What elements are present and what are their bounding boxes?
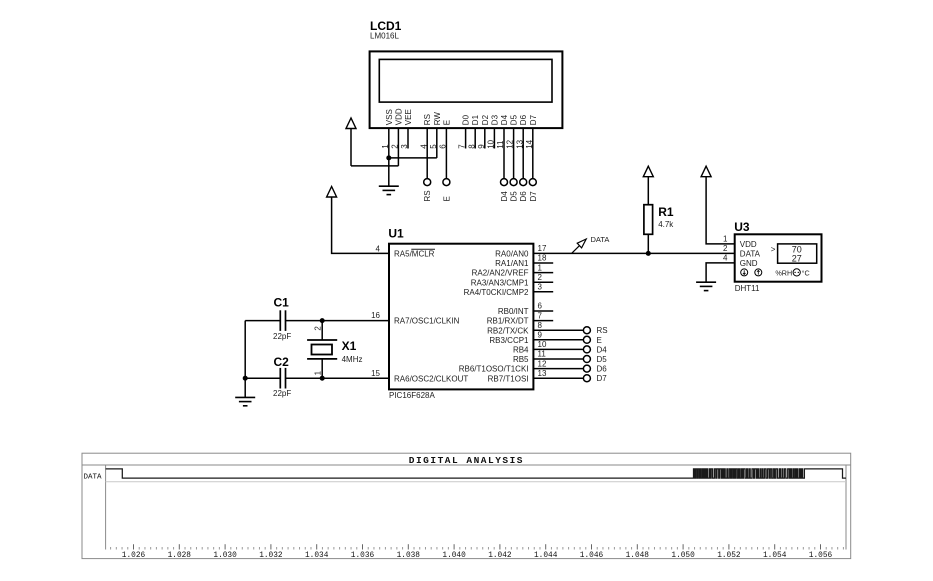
svg-text:D3: D3 bbox=[490, 114, 499, 125]
svg-text:R1: R1 bbox=[658, 205, 674, 219]
svg-text:D7: D7 bbox=[597, 374, 608, 383]
svg-text:RA0/AN0: RA0/AN0 bbox=[495, 250, 529, 259]
svg-text:1.056: 1.056 bbox=[809, 552, 833, 560]
svg-text:1.030: 1.030 bbox=[213, 552, 237, 560]
svg-text:X1: X1 bbox=[342, 339, 357, 353]
svg-text:D6: D6 bbox=[519, 191, 528, 202]
svg-text:1.048: 1.048 bbox=[626, 552, 650, 560]
svg-text:27: 27 bbox=[792, 254, 802, 264]
svg-text:RB5: RB5 bbox=[513, 355, 529, 364]
svg-text:1.046: 1.046 bbox=[580, 552, 604, 560]
svg-text:D7: D7 bbox=[529, 191, 538, 202]
svg-text:RB2/TX/CK: RB2/TX/CK bbox=[487, 326, 529, 335]
svg-text:°C: °C bbox=[802, 268, 810, 277]
svg-text:VSS: VSS bbox=[385, 109, 394, 125]
svg-text:1.034: 1.034 bbox=[305, 552, 329, 560]
svg-text:12: 12 bbox=[538, 359, 547, 368]
svg-text:DATA: DATA bbox=[84, 473, 103, 481]
svg-text:2: 2 bbox=[313, 326, 322, 331]
svg-text:RB4: RB4 bbox=[513, 346, 529, 355]
svg-text:1.054: 1.054 bbox=[763, 552, 787, 560]
svg-text:U1: U1 bbox=[388, 227, 404, 241]
svg-text:1: 1 bbox=[313, 370, 322, 375]
svg-text:1.044: 1.044 bbox=[534, 552, 558, 560]
svg-text:8: 8 bbox=[538, 321, 543, 330]
svg-text:RW: RW bbox=[433, 112, 442, 126]
svg-text:C1: C1 bbox=[274, 296, 290, 310]
svg-text:D4: D4 bbox=[597, 345, 608, 354]
svg-text:C2: C2 bbox=[274, 355, 290, 369]
svg-text:RS: RS bbox=[423, 114, 432, 125]
svg-text:D2: D2 bbox=[481, 114, 490, 125]
svg-text:9: 9 bbox=[538, 331, 543, 340]
svg-text:RA3/AN3/CMP1: RA3/AN3/CMP1 bbox=[471, 278, 529, 287]
svg-text:D5: D5 bbox=[510, 191, 519, 202]
svg-text:15: 15 bbox=[371, 369, 380, 378]
svg-text:4.7k: 4.7k bbox=[658, 220, 674, 229]
svg-text:1.026: 1.026 bbox=[122, 552, 146, 560]
svg-text:RB0/INT: RB0/INT bbox=[498, 307, 529, 316]
svg-text:PIC16F628A: PIC16F628A bbox=[389, 391, 435, 400]
svg-text:1.028: 1.028 bbox=[168, 552, 192, 560]
svg-text:6: 6 bbox=[538, 302, 543, 311]
svg-text:DIGITAL ANALYSIS: DIGITAL ANALYSIS bbox=[409, 455, 524, 466]
svg-text:DATA: DATA bbox=[740, 249, 761, 258]
svg-text:1.050: 1.050 bbox=[671, 552, 695, 560]
svg-text:E: E bbox=[597, 336, 602, 345]
svg-text:RA2/AN2/VREF: RA2/AN2/VREF bbox=[472, 269, 529, 278]
svg-text:D0: D0 bbox=[462, 114, 471, 125]
svg-text:DATA: DATA bbox=[591, 235, 610, 244]
svg-text:VDD: VDD bbox=[394, 108, 403, 125]
svg-text:7: 7 bbox=[538, 311, 543, 320]
svg-text:1.036: 1.036 bbox=[351, 552, 375, 560]
svg-text:1: 1 bbox=[723, 235, 728, 244]
svg-text:2: 2 bbox=[538, 273, 543, 282]
svg-text:3: 3 bbox=[538, 283, 543, 292]
svg-text:1.042: 1.042 bbox=[488, 552, 512, 560]
svg-text:U3: U3 bbox=[734, 220, 750, 234]
svg-text:RS: RS bbox=[423, 190, 432, 201]
svg-text:17: 17 bbox=[538, 244, 547, 253]
svg-text:GND: GND bbox=[740, 259, 758, 268]
svg-text:RS: RS bbox=[597, 326, 608, 335]
svg-text:RB3/CCP1: RB3/CCP1 bbox=[489, 336, 529, 345]
svg-text:RA4/T0CKI/CMP2: RA4/T0CKI/CMP2 bbox=[464, 288, 529, 297]
svg-text:VDD: VDD bbox=[740, 240, 757, 249]
svg-text:1.040: 1.040 bbox=[442, 552, 466, 560]
svg-text:4: 4 bbox=[376, 244, 381, 253]
svg-text:D5: D5 bbox=[597, 355, 608, 364]
svg-text:4: 4 bbox=[723, 254, 728, 263]
svg-text:D4: D4 bbox=[500, 191, 509, 202]
svg-text:RB6/T1OSO/T1CKI: RB6/T1OSO/T1CKI bbox=[459, 365, 529, 374]
svg-text:E: E bbox=[442, 196, 451, 201]
svg-text:11: 11 bbox=[538, 350, 547, 359]
svg-text:>: > bbox=[771, 245, 776, 254]
svg-text:4MHz: 4MHz bbox=[342, 355, 363, 364]
svg-text:1: 1 bbox=[538, 263, 543, 272]
svg-text:1.038: 1.038 bbox=[397, 552, 421, 560]
svg-text:D6: D6 bbox=[519, 114, 528, 125]
svg-text:22pF: 22pF bbox=[273, 332, 291, 341]
svg-text:10: 10 bbox=[538, 340, 547, 349]
svg-text:VEE: VEE bbox=[404, 109, 413, 125]
svg-text:13: 13 bbox=[538, 369, 547, 378]
svg-text:D6: D6 bbox=[597, 365, 608, 374]
svg-text:RA5/MCLR: RA5/MCLR bbox=[394, 250, 435, 259]
svg-text:RA6/OSC2/CLKOUT: RA6/OSC2/CLKOUT bbox=[394, 374, 468, 383]
svg-text:RA7/OSC1/CLKIN: RA7/OSC1/CLKIN bbox=[394, 316, 460, 325]
svg-text:RB7/T1OSI: RB7/T1OSI bbox=[488, 374, 529, 383]
svg-text:D4: D4 bbox=[500, 114, 509, 125]
svg-text:1.032: 1.032 bbox=[259, 552, 283, 560]
svg-text:D7: D7 bbox=[529, 114, 538, 125]
svg-text:22pF: 22pF bbox=[273, 389, 291, 398]
svg-text:LM016L: LM016L bbox=[370, 32, 399, 41]
svg-text:D5: D5 bbox=[510, 114, 519, 125]
svg-text:RB1/RX/DT: RB1/RX/DT bbox=[487, 317, 529, 326]
svg-text:D1: D1 bbox=[471, 114, 480, 125]
svg-text:16: 16 bbox=[371, 311, 380, 320]
svg-text:2: 2 bbox=[723, 244, 728, 253]
svg-text:18: 18 bbox=[538, 254, 547, 263]
svg-text:E: E bbox=[442, 120, 451, 125]
svg-text:RA1/AN1: RA1/AN1 bbox=[495, 259, 529, 268]
svg-text:1.052: 1.052 bbox=[717, 552, 741, 560]
svg-text:%RH: %RH bbox=[775, 268, 792, 277]
svg-text:DHT11: DHT11 bbox=[735, 284, 760, 293]
